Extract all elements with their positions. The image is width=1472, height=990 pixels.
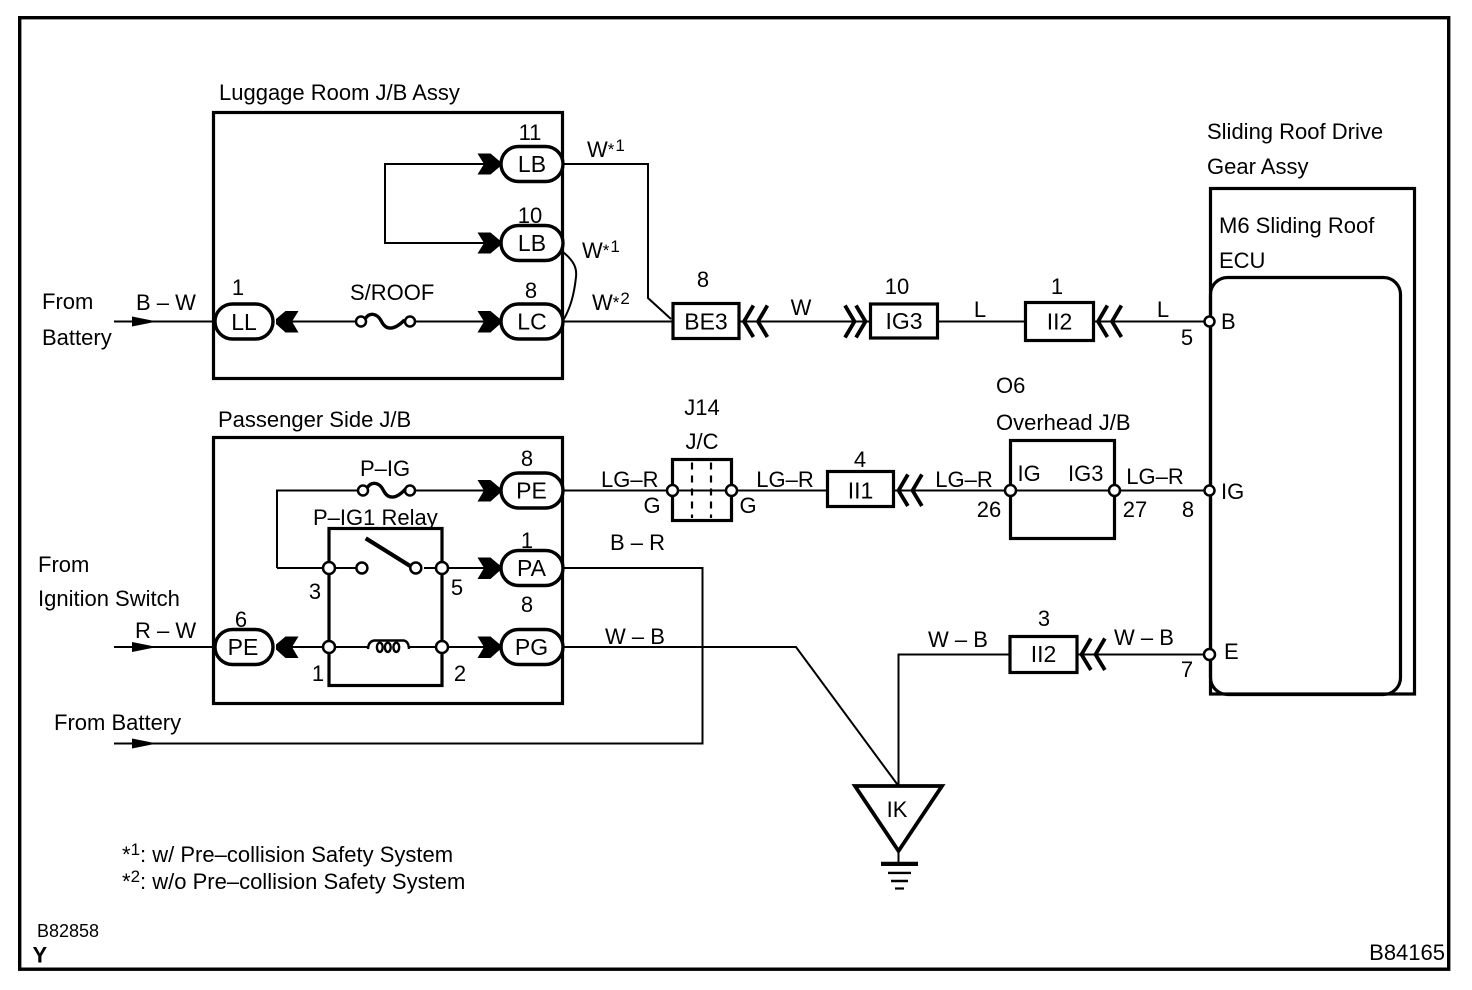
relay contact right	[410, 563, 421, 574]
svg-text:From: From	[38, 552, 89, 577]
svg-text:Battery: Battery	[42, 325, 112, 350]
ground bar 2	[888, 872, 911, 874]
svg-text:B84165: B84165	[1369, 940, 1445, 965]
svg-text:2: 2	[454, 661, 466, 686]
junction connector J14 J/C box	[673, 460, 732, 521]
node G left	[667, 485, 678, 496]
svg-text:L: L	[974, 297, 986, 322]
ground bar 1	[881, 862, 918, 866]
svg-text:8: 8	[521, 592, 533, 617]
connector chevrons before IG3	[845, 306, 866, 338]
svg-text:10: 10	[518, 203, 542, 228]
wire ignition to PE6	[114, 646, 215, 648]
arrowhead battery feed bottom	[132, 739, 157, 749]
arrowhead into LC	[478, 311, 501, 333]
connector LB pin 10	[501, 226, 563, 261]
svg-text:26: 26	[977, 497, 1001, 522]
svg-text:1: 1	[232, 275, 244, 300]
ground bar 4	[895, 887, 904, 889]
connector IG3 pin 10	[871, 304, 938, 338]
arrowhead into PE6 (left-pointing)	[276, 637, 299, 659]
wire BE3 to IG3	[739, 321, 870, 323]
svg-text:LG–R: LG–R	[935, 467, 992, 492]
wire II1 to overhead pin 26	[894, 490, 1011, 492]
ground stem	[898, 851, 900, 862]
relay switch arm	[366, 538, 411, 566]
wire II2-3 to ground elbow	[899, 655, 1011, 787]
svg-text:LG–R: LG–R	[1126, 464, 1183, 489]
svg-text:8: 8	[1182, 497, 1194, 522]
svg-text:LC: LC	[517, 309, 546, 335]
wire LB10 output curve W*1	[563, 252, 576, 319]
relay P-IG1 box	[329, 529, 442, 686]
svg-text:Overhead J/B: Overhead J/B	[996, 410, 1131, 435]
arrowhead into PG	[478, 637, 501, 659]
svg-text:Ignition Switch: Ignition Switch	[38, 586, 180, 611]
svg-text:From Battery: From Battery	[54, 710, 181, 735]
arrowhead into LB11	[478, 154, 501, 175]
svg-text:O6: O6	[996, 373, 1025, 398]
svg-text:PA: PA	[517, 555, 547, 581]
connector PE pin 6	[215, 630, 273, 665]
svg-text:II2: II2	[1031, 641, 1057, 667]
JC dashed line 2	[710, 463, 712, 519]
svg-text:8: 8	[525, 278, 537, 303]
fuse S/ROOF	[356, 314, 415, 328]
svg-text:W: W	[791, 295, 812, 320]
junction block Overhead J/B box	[1011, 441, 1115, 539]
svg-text:Passenger Side J/B: Passenger Side J/B	[218, 407, 411, 432]
connector PA pin 1	[501, 551, 563, 586]
svg-text:ECU: ECU	[1219, 248, 1265, 273]
svg-text:B – R: B – R	[610, 530, 665, 555]
wire II2 to ECU pin B	[1094, 321, 1205, 323]
svg-text:LL: LL	[231, 309, 257, 335]
svg-text:11: 11	[519, 120, 542, 145]
svg-text:3: 3	[309, 579, 321, 604]
wire coil to pin2	[408, 646, 500, 648]
JC dashed line 1	[691, 463, 693, 519]
node pin 26	[1005, 485, 1016, 496]
wire LC to BE3 W*2	[563, 321, 673, 323]
relay pin 5	[436, 562, 448, 574]
fuse P-IG	[358, 483, 415, 497]
svg-text:1: 1	[312, 661, 324, 686]
svg-text:LB: LB	[518, 230, 546, 256]
ECU outer box Sliding Roof Drive Gear Assy	[1211, 189, 1415, 695]
connector PE pin 8	[501, 473, 563, 508]
svg-text:B – W: B – W	[136, 290, 196, 315]
svg-text:IG3: IG3	[885, 308, 922, 334]
svg-text:BE3: BE3	[684, 309, 727, 335]
connector II2 pin 3	[1010, 637, 1077, 673]
svg-text:LB: LB	[518, 151, 546, 177]
svg-text:Gear Assy: Gear Assy	[1207, 154, 1308, 179]
node pin 27	[1109, 485, 1120, 496]
svg-text:R – W: R – W	[135, 618, 196, 643]
svg-text:IK: IK	[887, 797, 908, 822]
wire LL to fuse	[276, 321, 357, 323]
node G right	[726, 485, 737, 496]
connector BE3 pin 8	[673, 304, 739, 339]
arrowhead into PA	[478, 558, 501, 580]
svg-text:4: 4	[854, 447, 866, 472]
relay coil	[368, 641, 409, 652]
svg-text:LG–R: LG–R	[601, 467, 658, 492]
svg-text:Y: Y	[33, 943, 48, 968]
svg-text:1: 1	[1051, 274, 1063, 299]
svg-text:LG–R: LG–R	[756, 467, 813, 492]
connector LL pin 1	[215, 304, 273, 339]
svg-text:B: B	[1221, 309, 1236, 334]
wire contact to pin5	[424, 567, 500, 569]
svg-text:27: 27	[1123, 497, 1147, 522]
svg-text:W – B: W – B	[605, 624, 665, 649]
svg-text:7: 7	[1181, 657, 1193, 682]
svg-text:M6 Sliding Roof: M6 Sliding Roof	[1219, 213, 1375, 238]
wire PE6 to relay pin1	[276, 646, 368, 648]
svg-text:3: 3	[1038, 606, 1050, 631]
svg-text:5: 5	[451, 575, 463, 600]
svg-text:8: 8	[521, 446, 533, 471]
relay contact left	[356, 563, 367, 574]
svg-text:5: 5	[1181, 325, 1193, 350]
wire P-IG riser	[277, 491, 359, 569]
svg-text:*1: w/ Pre–collision Safety Sy: *1: w/ Pre–collision Safety System	[122, 840, 453, 867]
svg-text:B82858: B82858	[37, 921, 99, 941]
svg-text:8: 8	[697, 267, 709, 292]
node IG pin 8	[1205, 486, 1215, 496]
svg-text:L: L	[1157, 297, 1169, 322]
svg-text:IG: IG	[1018, 461, 1041, 486]
svg-text:W – B: W – B	[1114, 625, 1174, 650]
ground IK triangle	[855, 786, 942, 851]
arrowhead ignition feed	[132, 642, 157, 652]
wire PA to From Battery bottom	[114, 568, 703, 744]
junction block Passenger Side J/B box	[214, 438, 563, 704]
arrowhead into LB10	[478, 233, 501, 254]
junction block Luggage Room J/B Assy box	[214, 113, 563, 379]
op unit M6 Sliding Roof ECU inner box	[1211, 278, 1401, 695]
svg-text:P–IG: P–IG	[360, 456, 410, 481]
connector PG pin 8	[501, 630, 563, 665]
relay pin 3	[323, 562, 335, 574]
wire IG3 to II2	[938, 321, 1026, 323]
wire inside overhead	[1011, 490, 1115, 492]
svg-text:II2: II2	[1047, 309, 1073, 335]
wire PG to ground	[563, 647, 899, 786]
svg-text:G: G	[739, 493, 756, 518]
svg-text:E: E	[1224, 639, 1239, 664]
connector LC pin 8	[501, 304, 563, 339]
wire JC to II1	[737, 490, 828, 492]
svg-text:P–IG1 Relay: P–IG1 Relay	[313, 505, 438, 530]
svg-text:*2: w/o Pre–collision Safety S: *2: w/o Pre–collision Safety System	[122, 867, 465, 894]
ground bar 3	[891, 880, 908, 882]
wire pin27 to ECU IG	[1120, 490, 1204, 492]
connector LB pin 11	[501, 147, 563, 182]
svg-text:PE: PE	[516, 478, 547, 504]
connector II2 pin 1	[1026, 303, 1094, 341]
arrowhead into LL (left-pointing)	[276, 311, 299, 333]
relay pin 2	[436, 641, 448, 653]
wire LB11 LB10 bridge	[385, 164, 500, 243]
arrowhead battery feed	[132, 317, 157, 327]
svg-text:IG3: IG3	[1068, 461, 1103, 486]
node E pin 7	[1204, 649, 1215, 660]
connector chevrons after II1	[899, 475, 922, 507]
connector chevrons after II2	[1098, 306, 1121, 338]
svg-text:6: 6	[235, 607, 247, 632]
svg-text:Luggage Room J/B Assy: Luggage Room J/B Assy	[219, 80, 460, 105]
svg-text:S/ROOF: S/ROOF	[350, 280, 434, 305]
svg-text:Sliding Roof Drive: Sliding Roof Drive	[1207, 119, 1383, 144]
wire LB11 output W*1	[563, 164, 671, 319]
svg-text:PG: PG	[515, 634, 548, 660]
svg-text:J14: J14	[684, 395, 719, 420]
wire fuse P-IG to PE8	[414, 490, 500, 492]
svg-text:From: From	[42, 289, 93, 314]
connector chevrons after II2 bottom	[1082, 639, 1105, 671]
wire through JC	[672, 490, 732, 492]
arrowhead into PE8	[478, 480, 501, 502]
svg-text:1: 1	[521, 528, 533, 553]
node B pin 5	[1205, 317, 1215, 327]
wire II2-3 to ECU E	[1077, 654, 1204, 656]
wire From Battery to LL	[114, 321, 213, 323]
relay pin 1	[323, 641, 335, 653]
wire pin3 to contact	[277, 567, 356, 569]
wire fuse to LC	[414, 321, 500, 323]
connector II1 pin 4	[828, 472, 894, 507]
svg-text:J/C: J/C	[686, 429, 719, 454]
svg-text:W – B: W – B	[928, 627, 988, 652]
svg-text:IG: IG	[1221, 479, 1244, 504]
wire PE8 to JC	[563, 490, 672, 492]
connector chevrons after BE3	[744, 306, 767, 338]
svg-text:II1: II1	[848, 478, 874, 504]
svg-text:G: G	[643, 493, 660, 518]
svg-text:10: 10	[885, 274, 909, 299]
svg-text:PE: PE	[228, 634, 259, 660]
